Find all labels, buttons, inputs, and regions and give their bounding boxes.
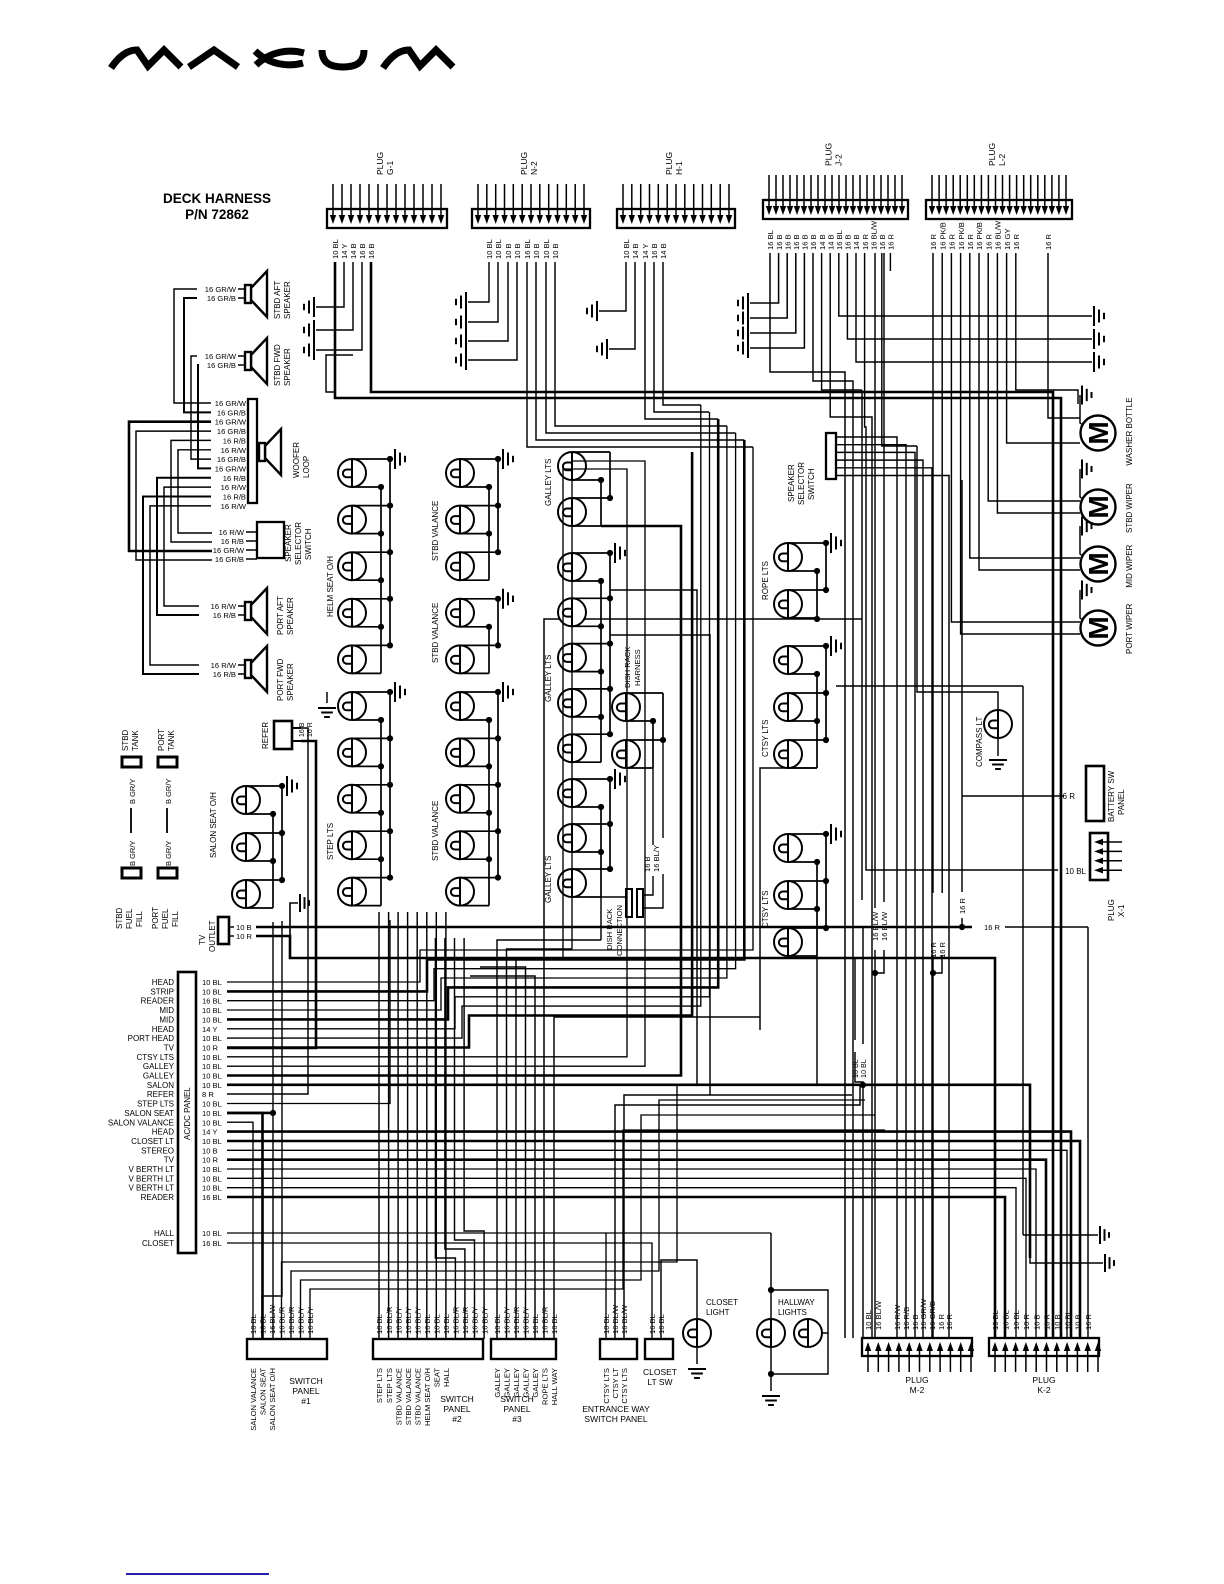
svg-text:16 BL/W: 16 BL/W bbox=[994, 220, 1003, 250]
svg-text:10 BL: 10 BL bbox=[202, 1015, 222, 1024]
svg-text:10 B: 10 B bbox=[202, 1146, 218, 1155]
svg-text:10 R: 10 R bbox=[1043, 1313, 1052, 1330]
svg-text:GALLEY LTS: GALLEY LTS bbox=[544, 856, 553, 903]
svg-text:STBD VALANCE: STBD VALANCE bbox=[404, 1368, 413, 1425]
svg-text:16 R: 16 R bbox=[948, 233, 957, 250]
svg-text:10 BL: 10 BL bbox=[1063, 1310, 1072, 1330]
svg-text:16 BL: 16 BL bbox=[523, 239, 532, 259]
svg-text:16 GR/W: 16 GR/W bbox=[205, 352, 237, 361]
svg-text:10 BL: 10 BL bbox=[442, 1314, 451, 1334]
svg-text:16 BL/Y: 16 BL/Y bbox=[413, 1307, 422, 1334]
svg-text:SALON SEAT: SALON SEAT bbox=[124, 1109, 174, 1118]
svg-text:8 R: 8 R bbox=[202, 1090, 214, 1099]
svg-text:READER: READER bbox=[141, 1193, 175, 1202]
svg-text:16 BL: 16 BL bbox=[550, 1314, 559, 1334]
plug PLUG N-2 bbox=[472, 152, 590, 259]
svg-text:WASHER BOTTLE: WASHER BOTTLE bbox=[1125, 397, 1134, 465]
svg-text:HEAD: HEAD bbox=[152, 1128, 174, 1137]
svg-text:STBD: STBD bbox=[121, 729, 130, 751]
wires N-2 staircase to mid trunk bbox=[527, 262, 753, 447]
svg-text:BATTERY SW: BATTERY SW bbox=[1107, 770, 1116, 822]
svg-text:10 R: 10 R bbox=[236, 932, 253, 941]
svg-text:SWITCH: SWITCH bbox=[440, 1394, 474, 1404]
stbd speaker pair wires bbox=[174, 289, 211, 403]
svg-text:STBD FWD: STBD FWD bbox=[273, 344, 282, 386]
rope lts feed to SP3 bbox=[814, 616, 820, 622]
svg-text:G-1: G-1 bbox=[385, 161, 395, 175]
svg-text:10 BL: 10 BL bbox=[202, 1072, 222, 1081]
L-2 wires down to motors bbox=[1048, 253, 1080, 418]
svg-text:V BERTH LT: V BERTH LT bbox=[129, 1165, 175, 1174]
svg-text:STBD WIPER: STBD WIPER bbox=[1125, 483, 1134, 533]
svg-text:16 GR/W: 16 GR/W bbox=[215, 418, 247, 427]
svg-text:16 B: 16 B bbox=[299, 722, 306, 737]
svg-text:16 BL/R: 16 BL/R bbox=[512, 1306, 521, 1334]
svg-text:DISH RACK: DISH RACK bbox=[605, 909, 614, 950]
svg-text:10 BL: 10 BL bbox=[1065, 867, 1086, 876]
svg-text:16 R: 16 R bbox=[958, 897, 967, 914]
speaker selector switch right bbox=[826, 433, 836, 479]
svg-text:10 B: 10 B bbox=[1032, 1314, 1041, 1330]
svg-text:16 PK/B: 16 PK/B bbox=[938, 222, 947, 250]
svg-text:PORT WIPER: PORT WIPER bbox=[1125, 603, 1134, 654]
ctsy1 feed down bbox=[760, 768, 817, 1030]
grounds left of N-2 bbox=[456, 292, 466, 312]
svg-text:16 GR/W: 16 GR/W bbox=[919, 1298, 928, 1330]
lamp group CTSY LTS 2 bbox=[774, 824, 841, 956]
svg-text:HALL: HALL bbox=[154, 1229, 175, 1238]
svg-text:PLUG: PLUG bbox=[1032, 1375, 1055, 1385]
svg-text:16 BL/W: 16 BL/W bbox=[611, 1304, 620, 1334]
svg-text:16 R/B: 16 R/B bbox=[213, 611, 236, 620]
lamp group STBD VALANCE upper bbox=[446, 449, 513, 580]
grounds near K-2 bbox=[1100, 1226, 1109, 1244]
svg-text:10 BL: 10 BL bbox=[259, 1314, 268, 1334]
svg-text:14 Y: 14 Y bbox=[202, 1128, 217, 1137]
svg-text:10 R: 10 R bbox=[202, 1043, 219, 1052]
svg-text:SALON VALANCE: SALON VALANCE bbox=[249, 1368, 258, 1431]
svg-text:#2: #2 bbox=[452, 1414, 462, 1424]
svg-text:SPEAKER: SPEAKER bbox=[787, 464, 796, 502]
HALL CLOSET wires bbox=[227, 1232, 771, 1234]
svg-text:10 BL: 10 BL bbox=[494, 239, 503, 259]
svg-text:10 BL: 10 BL bbox=[202, 1118, 222, 1127]
16 R horizontal label bbox=[959, 924, 965, 930]
svg-text:LIGHT: LIGHT bbox=[706, 1308, 730, 1317]
motor stbd wiper bbox=[1080, 460, 1134, 534]
svg-text:16 R/W: 16 R/W bbox=[221, 483, 247, 492]
svg-text:16 BL/R: 16 BL/R bbox=[287, 1306, 296, 1334]
svg-text:HARNESS: HARNESS bbox=[633, 649, 642, 686]
svg-text:FILL: FILL bbox=[135, 910, 144, 927]
svg-text:READER: READER bbox=[141, 997, 175, 1006]
svg-text:SWITCH: SWITCH bbox=[289, 1376, 323, 1386]
HALLWAY LIGHTS bbox=[757, 1233, 828, 1405]
svg-text:16 BL/R: 16 BL/R bbox=[541, 1306, 550, 1334]
svg-text:16 R: 16 R bbox=[1012, 233, 1021, 250]
svg-text:16 R/B: 16 R/B bbox=[213, 670, 236, 679]
PLUG X-1 bbox=[1090, 833, 1108, 880]
svg-text:16 R/W: 16 R/W bbox=[219, 528, 245, 537]
switch panel CLOSET LT SW bbox=[643, 1314, 677, 1387]
svg-text:CTSY LTS: CTSY LTS bbox=[602, 1368, 611, 1404]
svg-text:10 BL: 10 BL bbox=[202, 1174, 222, 1183]
svg-text:16 R/W: 16 R/W bbox=[211, 602, 237, 611]
PORT FWD speaker bbox=[245, 646, 267, 692]
svg-text:STBD VALANCE: STBD VALANCE bbox=[431, 603, 440, 663]
svg-text:CTSY LTS: CTSY LTS bbox=[620, 1368, 629, 1404]
svg-text:P/N 72862: P/N 72862 bbox=[185, 207, 249, 222]
svg-text:16 BL: 16 BL bbox=[423, 1314, 432, 1334]
svg-text:AC/DC PANEL: AC/DC PANEL bbox=[183, 1087, 192, 1140]
svg-text:10 BL: 10 BL bbox=[202, 1053, 222, 1062]
svg-text:B GR/Y: B GR/Y bbox=[164, 779, 173, 804]
svg-text:STBD AFT: STBD AFT bbox=[273, 281, 282, 319]
svg-text:16 GY: 16 GY bbox=[1003, 228, 1012, 250]
svg-text:B GR/Y: B GR/Y bbox=[128, 841, 137, 866]
svg-text:16 BL/R: 16 BL/R bbox=[452, 1306, 461, 1334]
AC/DC PANEL bbox=[178, 972, 196, 1253]
svg-text:16 BL/Y: 16 BL/Y bbox=[404, 1307, 413, 1334]
svg-text:16 BL/Y: 16 BL/Y bbox=[652, 845, 661, 872]
svg-text:10 B: 10 B bbox=[1053, 1314, 1062, 1330]
svg-text:10 BL: 10 BL bbox=[202, 978, 222, 987]
svg-text:STEP LTS: STEP LTS bbox=[375, 1368, 384, 1403]
rope feed long wire bbox=[544, 619, 862, 1338]
svg-text:H-1: H-1 bbox=[674, 161, 684, 175]
svg-text:CLOSET: CLOSET bbox=[706, 1298, 738, 1307]
svg-text:MID WIPER: MID WIPER bbox=[1125, 544, 1134, 587]
svg-text:SELECTOR: SELECTOR bbox=[294, 522, 303, 565]
motor mid wiper bbox=[1080, 517, 1134, 588]
svg-text:14 Y: 14 Y bbox=[641, 244, 650, 259]
svg-text:X-1: X-1 bbox=[1117, 904, 1126, 917]
svg-text:STEP LTS: STEP LTS bbox=[326, 823, 335, 860]
lamp group STBD VALANCE mid bbox=[446, 589, 513, 674]
speaker selector switch left bbox=[257, 522, 284, 558]
svg-text:SALON VALANCE: SALON VALANCE bbox=[108, 1118, 174, 1127]
svg-text:SPEAKER: SPEAKER bbox=[284, 524, 293, 562]
svg-text:PLUG: PLUG bbox=[824, 143, 834, 166]
svg-text:16 B: 16 B bbox=[650, 243, 659, 259]
svg-text:16 BL: 16 BL bbox=[202, 997, 222, 1006]
svg-text:PORT: PORT bbox=[157, 729, 166, 751]
CLOSET LIGHT bbox=[683, 1319, 711, 1347]
svg-text:16 BL/W: 16 BL/W bbox=[880, 911, 889, 941]
svg-text:PORT AFT: PORT AFT bbox=[276, 596, 285, 635]
plug PLUG J-2 bbox=[763, 143, 908, 250]
svg-text:GALLEY LTS: GALLEY LTS bbox=[544, 655, 553, 702]
AC/DC rows 8-15 bbox=[227, 469, 627, 1057]
svg-text:PLUG: PLUG bbox=[664, 152, 674, 175]
lamp group DISH RACK HARNESS bbox=[612, 693, 666, 768]
svg-text:SALON: SALON bbox=[147, 1081, 174, 1090]
ground right of REFER bbox=[318, 708, 336, 717]
svg-text:10 BL: 10 BL bbox=[531, 1314, 540, 1334]
svg-text:HELM SEAT O/H: HELM SEAT O/H bbox=[423, 1368, 432, 1426]
svg-text:10 B: 10 B bbox=[513, 243, 522, 259]
svg-text:STRIP: STRIP bbox=[150, 987, 174, 996]
svg-text:16 R/B: 16 R/B bbox=[902, 1307, 911, 1330]
svg-text:COMPASS LT: COMPASS LT bbox=[975, 717, 984, 767]
svg-text:LIGHTS: LIGHTS bbox=[778, 1308, 807, 1317]
svg-text:SALON SEAT O/H: SALON SEAT O/H bbox=[209, 792, 218, 858]
svg-text:STEREO: STEREO bbox=[141, 1146, 174, 1155]
galley feed extension bbox=[600, 897, 602, 940]
svg-text:PANEL: PANEL bbox=[503, 1404, 531, 1414]
svg-text:16 BL/Y: 16 BL/Y bbox=[522, 1307, 531, 1334]
mid verticals from galley bus bbox=[610, 590, 697, 1085]
svg-text:DECK HARNESS: DECK HARNESS bbox=[163, 191, 271, 206]
svg-text:16 R/B: 16 R/B bbox=[223, 474, 246, 483]
svg-text:10 B: 10 B bbox=[1074, 1314, 1083, 1330]
switch panel SWITCH #3 bbox=[491, 1306, 559, 1424]
svg-text:MID: MID bbox=[159, 1015, 174, 1024]
svg-text:10 BL: 10 BL bbox=[202, 1062, 222, 1071]
svg-text:16 BL/Y: 16 BL/Y bbox=[297, 1307, 306, 1334]
svg-text:16 BL/R: 16 BL/R bbox=[461, 1306, 470, 1334]
PORT AFT speaker bbox=[245, 588, 267, 634]
svg-text:14 Y: 14 Y bbox=[202, 1025, 217, 1034]
selector switch wires to M-2 trunks bbox=[836, 437, 897, 1338]
svg-text:FILL: FILL bbox=[171, 910, 180, 927]
svg-text:10 BL: 10 BL bbox=[622, 239, 631, 259]
svg-text:14 B: 14 B bbox=[349, 243, 358, 259]
svg-text:16 R/W: 16 R/W bbox=[221, 446, 247, 455]
svg-text:HEAD: HEAD bbox=[152, 1025, 174, 1034]
svg-text:PLUG: PLUG bbox=[987, 143, 997, 166]
svg-text:10 BL: 10 BL bbox=[202, 1034, 222, 1043]
svg-text:STBD VALANCE: STBD VALANCE bbox=[431, 801, 440, 861]
svg-text:HALLWAY: HALLWAY bbox=[778, 1298, 815, 1307]
G-1 trunk wires thick bbox=[335, 262, 1061, 1338]
svg-text:10 BL: 10 BL bbox=[331, 239, 340, 259]
svg-text:16 B: 16 B bbox=[367, 243, 376, 259]
svg-text:10 BL: 10 BL bbox=[202, 1137, 222, 1146]
PLUG M-2 bbox=[862, 1298, 974, 1395]
grounds right of H-1 fed by J-2 bbox=[738, 293, 748, 313]
svg-text:16 GR/W: 16 GR/W bbox=[213, 546, 245, 555]
svg-text:16 BL: 16 BL bbox=[202, 1239, 222, 1248]
lamp group STEP LTS bbox=[338, 682, 405, 906]
svg-text:ROPE LTS: ROPE LTS bbox=[541, 1368, 550, 1405]
svg-text:14 B: 14 B bbox=[659, 243, 668, 259]
svg-text:PLUG: PLUG bbox=[375, 152, 385, 175]
svg-text:10 B: 10 B bbox=[236, 923, 252, 932]
svg-text:PANEL: PANEL bbox=[1117, 789, 1126, 815]
AC/DC panel wires rows 0-7 to mid trunk bbox=[227, 447, 753, 982]
switch panel 3 trunks bbox=[497, 940, 601, 1339]
svg-text:16 GR/B: 16 GR/B bbox=[217, 427, 246, 436]
svg-text:16 GR/W: 16 GR/W bbox=[215, 464, 247, 473]
svg-text:OUTLET: OUTLET bbox=[208, 920, 217, 952]
svg-text:16 BL/Y: 16 BL/Y bbox=[480, 1307, 489, 1334]
svg-text:14 B: 14 B bbox=[631, 243, 640, 259]
svg-text:WOOFER: WOOFER bbox=[292, 442, 301, 478]
svg-text:CLOSET: CLOSET bbox=[142, 1239, 174, 1248]
switch panel 2 trunks bbox=[378, 912, 380, 1339]
svg-text:MID: MID bbox=[159, 1006, 174, 1015]
svg-text:CTSY LTS: CTSY LTS bbox=[761, 720, 770, 758]
svg-text:10 BL: 10 BL bbox=[249, 1314, 258, 1334]
svg-text:10 BL: 10 BL bbox=[202, 1006, 222, 1015]
svg-text:GALLEY: GALLEY bbox=[143, 1072, 175, 1081]
entrance panel trunks bbox=[615, 1085, 860, 1339]
woofer speaker bbox=[259, 429, 281, 475]
svg-text:TV: TV bbox=[198, 934, 207, 945]
svg-text:SWITCH PANEL: SWITCH PANEL bbox=[584, 1414, 647, 1424]
svg-text:10 R: 10 R bbox=[202, 1156, 219, 1165]
svg-text:ENTRANCE WAY: ENTRANCE WAY bbox=[582, 1404, 650, 1414]
svg-text:STBD VALANCE: STBD VALANCE bbox=[394, 1368, 403, 1425]
svg-text:16 R/B: 16 R/B bbox=[223, 493, 246, 502]
svg-text:SELECTOR: SELECTOR bbox=[797, 462, 806, 505]
svg-text:STBD VALANCE: STBD VALANCE bbox=[413, 1368, 422, 1425]
svg-text:16 R: 16 R bbox=[1044, 233, 1053, 250]
svg-text:16 GR/B: 16 GR/B bbox=[207, 294, 236, 303]
svg-text:10 BL: 10 BL bbox=[542, 239, 551, 259]
svg-text:CTSY LTS: CTSY LTS bbox=[137, 1053, 175, 1062]
svg-text:10 BL: 10 BL bbox=[202, 1081, 222, 1090]
ground near TV outlet bbox=[300, 894, 309, 912]
svg-text:10 B: 10 B bbox=[532, 243, 541, 259]
svg-text:16 GR/B: 16 GR/B bbox=[207, 361, 236, 370]
ctsy2 feed down bbox=[816, 956, 818, 1085]
svg-text:CTSY LTS: CTSY LTS bbox=[761, 891, 770, 929]
svg-text:SWITCH: SWITCH bbox=[807, 468, 816, 500]
svg-text:PORT: PORT bbox=[151, 907, 160, 929]
svg-text:STEP LTS: STEP LTS bbox=[385, 1368, 394, 1403]
svg-text:V BERTH LT: V BERTH LT bbox=[129, 1184, 175, 1193]
svg-text:16 R: 16 R bbox=[929, 233, 938, 250]
L-2 red wires down right side bbox=[932, 253, 934, 893]
svg-text:SWITCH: SWITCH bbox=[304, 528, 313, 560]
svg-text:M: M bbox=[1083, 421, 1114, 444]
svg-text:16 R: 16 R bbox=[984, 923, 1001, 932]
svg-text:SALON SEAT: SALON SEAT bbox=[259, 1368, 268, 1415]
svg-text:16 R: 16 R bbox=[945, 1313, 954, 1330]
sp1 staircase right bbox=[282, 1085, 856, 1339]
svg-text:SALON SEAT O/H: SALON SEAT O/H bbox=[268, 1368, 277, 1431]
svg-text:10 BL: 10 BL bbox=[202, 1165, 222, 1174]
plug PLUG L-2 bbox=[926, 143, 1072, 250]
svg-text:16 BL/Y: 16 BL/Y bbox=[306, 1307, 315, 1334]
svg-text:K-2: K-2 bbox=[1037, 1385, 1051, 1395]
svg-text:SPEAKER: SPEAKER bbox=[286, 663, 295, 701]
STBD AFT speaker bbox=[245, 271, 267, 317]
J-2 wires to right grounds bbox=[1094, 306, 1104, 326]
svg-text:16 R/W: 16 R/W bbox=[221, 502, 247, 511]
lamp group HELM SEAT O/H bbox=[338, 449, 405, 673]
svg-text:TV: TV bbox=[164, 1043, 175, 1052]
svg-text:16 R/B: 16 R/B bbox=[221, 537, 244, 546]
switch panel ENTRANCE WAY SWITCH PANEL bbox=[582, 1304, 650, 1424]
svg-text:HALL WAY: HALL WAY bbox=[550, 1368, 559, 1405]
svg-text:10 BL: 10 BL bbox=[991, 1310, 1000, 1330]
lamp group GALLEY LTS upper bbox=[558, 452, 613, 526]
svg-text:16 BL/W: 16 BL/W bbox=[620, 1304, 629, 1334]
svg-text:CLOSET LT: CLOSET LT bbox=[131, 1137, 174, 1146]
svg-text:16 BL/Y: 16 BL/Y bbox=[394, 1307, 403, 1334]
svg-text:M-2: M-2 bbox=[910, 1385, 925, 1395]
svg-text:16 B: 16 B bbox=[358, 243, 367, 259]
svg-text:V BERTH LT: V BERTH LT bbox=[129, 1174, 175, 1183]
svg-text:TANK: TANK bbox=[167, 730, 176, 751]
svg-text:10 B: 10 B bbox=[551, 243, 560, 259]
svg-text:L-2: L-2 bbox=[997, 153, 1007, 166]
svg-text:SPEAKER: SPEAKER bbox=[283, 348, 292, 386]
motor washer bottle bbox=[1080, 386, 1134, 466]
svg-text:STEP LTS: STEP LTS bbox=[137, 1100, 174, 1109]
svg-text:N-2: N-2 bbox=[529, 161, 539, 175]
svg-text:10 BL: 10 BL bbox=[375, 1314, 384, 1334]
svg-text:LT SW: LT SW bbox=[647, 1377, 672, 1387]
svg-text:16 GR/W: 16 GR/W bbox=[205, 285, 237, 294]
REFER bbox=[274, 721, 292, 749]
STBD FWD speaker bbox=[245, 338, 267, 384]
svg-text:16 BL/W: 16 BL/W bbox=[871, 911, 880, 941]
svg-text:16 R: 16 R bbox=[984, 233, 993, 250]
svg-text:16 GR/B: 16 GR/B bbox=[215, 555, 244, 564]
svg-text:PANEL: PANEL bbox=[292, 1386, 320, 1396]
svg-text:10 R: 10 R bbox=[1022, 1313, 1031, 1330]
svg-text:PLUG: PLUG bbox=[1107, 899, 1116, 921]
svg-text:LOOP: LOOP bbox=[302, 456, 311, 478]
svg-text:FUEL: FUEL bbox=[161, 908, 170, 929]
svg-text:16 R/B: 16 R/B bbox=[223, 436, 246, 445]
svg-text:10 BL: 10 BL bbox=[602, 1314, 611, 1334]
svg-text:16 R: 16 R bbox=[966, 233, 975, 250]
grounds left of G-1 bbox=[304, 297, 314, 317]
svg-text:16 GR/B: 16 GR/B bbox=[217, 455, 246, 464]
footer rule bbox=[126, 1573, 269, 1575]
lamp group SALON SEAT O/H bbox=[232, 776, 297, 908]
svg-text:#1: #1 bbox=[301, 1396, 311, 1406]
svg-text:PLUG: PLUG bbox=[519, 152, 529, 175]
svg-text:CONNECTION: CONNECTION bbox=[615, 905, 624, 956]
svg-text:FUEL: FUEL bbox=[125, 908, 134, 929]
svg-text:B GR/Y: B GR/Y bbox=[128, 779, 137, 804]
COMPASS LT bbox=[984, 710, 1012, 738]
svg-text:TV: TV bbox=[164, 1156, 175, 1165]
svg-text:CLOSET: CLOSET bbox=[643, 1367, 677, 1377]
svg-text:PORT HEAD: PORT HEAD bbox=[128, 1034, 175, 1043]
svg-text:10 BL: 10 BL bbox=[202, 987, 222, 996]
svg-text:10 BL: 10 BL bbox=[202, 1109, 222, 1118]
svg-text:16 GR/B: 16 GR/B bbox=[217, 408, 246, 417]
svg-text:SPEAKER: SPEAKER bbox=[286, 597, 295, 635]
svg-text:16 BL/W: 16 BL/W bbox=[268, 1304, 277, 1334]
PLUG K-2 bbox=[989, 1310, 1101, 1395]
AC/DC rows 16-23 to K-2 bbox=[227, 1132, 1071, 1338]
svg-text:GALLEY: GALLEY bbox=[143, 1062, 175, 1071]
svg-text:GALLEY LTS: GALLEY LTS bbox=[544, 459, 553, 506]
svg-text:SWITCH: SWITCH bbox=[500, 1394, 534, 1404]
plug PLUG H-1 bbox=[617, 152, 735, 259]
svg-text:10 BL: 10 BL bbox=[1002, 1310, 1011, 1330]
lamp group STBD VALANCE lower bbox=[446, 682, 513, 906]
svg-text:STBD VALANCE: STBD VALANCE bbox=[431, 501, 440, 561]
svg-text:10 BL: 10 BL bbox=[202, 1184, 222, 1193]
switch panel SWITCH #2 bbox=[373, 1306, 489, 1426]
svg-text:10 BL: 10 BL bbox=[202, 1100, 222, 1109]
plug PLUG G-1 bbox=[327, 152, 447, 259]
svg-text:PANEL: PANEL bbox=[443, 1404, 471, 1414]
svg-text:14 Y: 14 Y bbox=[340, 244, 349, 259]
svg-text:PORT FWD: PORT FWD bbox=[276, 658, 285, 701]
woofer loop bus bbox=[248, 399, 257, 503]
lamp group GALLEY LTS lower bbox=[558, 769, 625, 897]
